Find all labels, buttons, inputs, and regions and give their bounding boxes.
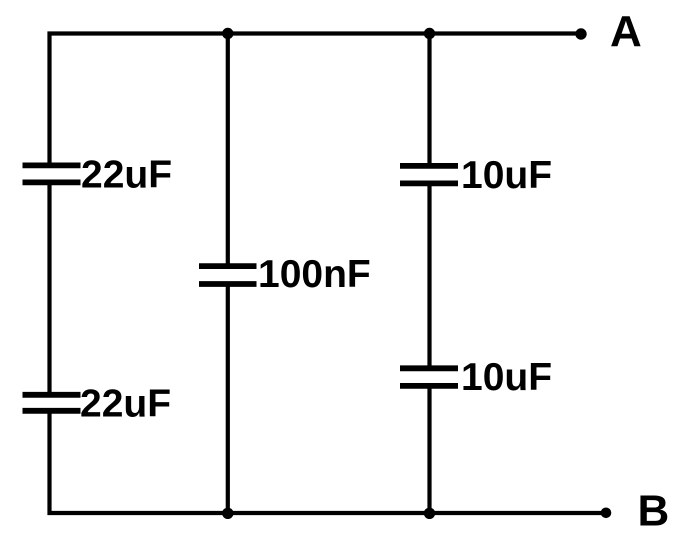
wire: right branch upper segment	[427, 34, 431, 165]
svg-text:22uF: 22uF	[81, 154, 172, 197]
wire: right branch middle segment between C4 and C5	[427, 185, 431, 367]
svg-text:10uF: 10uF	[461, 356, 552, 399]
junction dot: top bus / right branch	[424, 28, 435, 39]
wire: bottom bus from left branch to terminal B	[48, 511, 607, 515]
svg-text:10uF: 10uF	[461, 154, 552, 197]
wire: right branch lower segment	[427, 388, 431, 514]
wire: middle branch upper segment	[226, 34, 230, 265]
svg-text:22uF: 22uF	[80, 383, 171, 426]
junction dot: top bus / middle branch	[222, 28, 233, 39]
capacitor C2 22uF (left branch, lower)	[23, 395, 81, 411]
capacitor C3 100nF (middle branch)	[199, 266, 257, 284]
svg-text:B: B	[638, 487, 670, 536]
wire: middle branch lower segment	[226, 286, 230, 514]
svg-text:A: A	[610, 7, 642, 56]
svg-text:100nF: 100nF	[258, 253, 371, 296]
wire: left branch lower segment	[47, 413, 51, 516]
capacitor C1 22uF (left branch, upper)	[23, 165, 81, 182]
wire: left branch upper segment	[47, 32, 51, 164]
junction dot: bottom bus / right branch	[424, 508, 435, 519]
wire: left branch middle segment between C1 and C2	[47, 184, 51, 394]
terminal dot: node A	[575, 28, 586, 39]
wire: top bus from left branch to terminal A	[48, 31, 582, 35]
capacitor C5 10uF (right branch, lower)	[400, 368, 458, 386]
capacitor C4 10uF (right branch, upper)	[400, 166, 458, 184]
junction dot: bottom bus / middle branch	[222, 508, 233, 519]
terminal dot: node B	[601, 508, 612, 519]
